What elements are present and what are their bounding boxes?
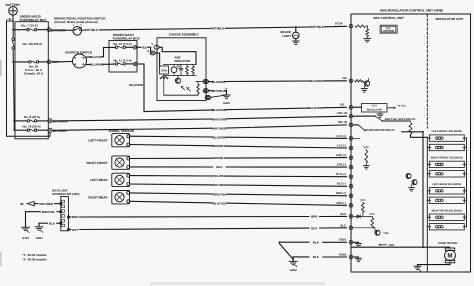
svg-text:MR +B: MR +B xyxy=(338,120,347,124)
svg-text:G401: G401 xyxy=(223,101,230,105)
svg-text:BLU/ORN: BLU/ORN xyxy=(308,106,322,110)
svg-text:WHT/RED: WHT/RED xyxy=(212,126,227,130)
svg-text:INDICATOR: INDICATOR xyxy=(175,59,192,63)
svg-text:FRS (-): FRS (-) xyxy=(337,163,346,167)
svg-text:ABS MODULATOR-CONTROL UNIT (4W: ABS MODULATOR-CONTROL UNIT (4WB) xyxy=(380,8,443,12)
svg-text:No. 18 (100 A): No. 18 (100 A) xyxy=(23,42,43,46)
svg-text:VCC: VCC xyxy=(364,146,370,149)
svg-text:GRY: GRY xyxy=(72,228,78,232)
svg-text:G101: G101 xyxy=(22,236,29,240)
svg-text:WHT/BLK: WHT/BLK xyxy=(84,28,99,32)
svg-text:GAUGE ASSEMBLY: GAUGE ASSEMBLY xyxy=(169,33,200,37)
svg-text:RIGHT-FRONT: RIGHT-FRONT xyxy=(86,161,107,165)
svg-text:FRS (+): FRS (+) xyxy=(336,153,346,157)
svg-text:M: M xyxy=(447,253,452,260)
svg-text:Canada: 50 A: Canada: 50 A xyxy=(24,71,44,75)
svg-text:ABS FAIL-SAFE RELAY: ABS FAIL-SAFE RELAY xyxy=(385,117,416,121)
svg-text:WHT/BLK: WHT/BLK xyxy=(310,25,325,29)
svg-text:BLU/ORN: BLU/ORN xyxy=(212,108,226,112)
svg-text:PUMP MOTOR RELAY: PUMP MOTOR RELAY xyxy=(366,128,395,132)
svg-text:BLK: BLK xyxy=(313,255,320,259)
svg-text:No. 7 (15 A): No. 7 (15 A) xyxy=(21,24,37,28)
svg-text:GND2: GND2 xyxy=(339,252,347,256)
svg-text:FLS (+): FLS (+) xyxy=(336,134,346,138)
svg-text:WHEEL SENSOR: WHEEL SENSOR xyxy=(109,129,135,133)
svg-text:BLU: BLU xyxy=(216,165,222,169)
svg-text:FUSE/RELAY BOX: FUSE/RELAY BOX xyxy=(113,37,141,41)
svg-text:WHT/RED: WHT/RED xyxy=(53,129,68,133)
svg-text:BRN/WHT: BRN/WHT xyxy=(212,144,226,148)
svg-text:YEL/RED: YEL/RED xyxy=(213,174,227,178)
svg-text:RIGHT-FRONT SOLENOID: RIGHT-FRONT SOLENOID xyxy=(431,157,463,160)
svg-text:RLS (+): RLS (+) xyxy=(336,172,346,176)
svg-text:G202: G202 xyxy=(290,268,297,272)
svg-text:CONNECTOR (16P): CONNECTOR (16P) xyxy=(52,192,79,196)
svg-text:*1: '02-04 models: *1: '02-04 models xyxy=(22,253,47,257)
svg-text:YEL: YEL xyxy=(141,45,147,49)
svg-text:BRN: BRN xyxy=(72,215,79,219)
svg-text:WHT/GRN: WHT/GRN xyxy=(212,117,226,121)
svg-text:WA: WA xyxy=(342,76,347,80)
svg-text:BRN: BRN xyxy=(311,215,318,219)
svg-text:IG1: IG1 xyxy=(340,102,345,106)
svg-text:BATTERY: BATTERY xyxy=(6,3,22,7)
svg-text:BLU/ORN: BLU/ORN xyxy=(129,83,143,87)
svg-text:RRS (-): RRS (-) xyxy=(337,201,347,205)
svg-text:FSR +B: FSR +B xyxy=(337,111,347,115)
svg-text:(Closed: Brake pedal pressed): (Closed: Brake pedal pressed) xyxy=(54,20,97,24)
svg-text:BLU/GRN: BLU/GRN xyxy=(213,135,227,139)
svg-text:BLU/RED: BLU/RED xyxy=(212,80,226,84)
svg-text:WHT/GRN: WHT/GRN xyxy=(53,119,67,123)
svg-text:No. 11 (7.5 A): No. 11 (7.5 A) xyxy=(113,59,131,63)
svg-text:PUMP MOTOR: PUMP MOTOR xyxy=(438,241,457,245)
svg-text:No. 8 (20 A): No. 8 (20 A) xyxy=(24,115,40,119)
svg-text:BRN/YEL: BRN/YEL xyxy=(42,210,55,214)
svg-text:TXD: TXD xyxy=(383,232,388,235)
svg-text:BLU/RED: BLU/RED xyxy=(310,79,324,83)
svg-text:WHT/RED: WHT/RED xyxy=(39,202,54,206)
svg-text:IGNITION SWITCH: IGNITION SWITCH xyxy=(65,50,93,54)
svg-text:+ B: + B xyxy=(6,17,12,21)
svg-text:FLS (-): FLS (-) xyxy=(337,143,346,147)
svg-text:GRY: GRY xyxy=(311,226,317,230)
svg-text:RXD: RXD xyxy=(389,244,395,247)
svg-text:FUSE/RELAY BOX: FUSE/RELAY BOX xyxy=(20,18,48,22)
svg-text:+5 V: +5 V xyxy=(372,105,378,108)
svg-text:SCS: SCS xyxy=(340,212,346,216)
svg-text:No. 16 (30 A): No. 16 (30 A) xyxy=(22,124,40,128)
svg-text:LEFT-FRONT: LEFT-FRONT xyxy=(88,139,107,143)
svg-text:LEFT-FRONT SOLENOID: LEFT-FRONT SOLENOID xyxy=(432,130,463,133)
svg-text:BLK: BLK xyxy=(313,240,320,244)
svg-text:GND1: GND1 xyxy=(339,238,347,242)
svg-text:RIGHT-REAR SOLENOID: RIGHT-REAR SOLENOID xyxy=(432,210,463,213)
svg-text:No. 10 (7.5 A): No. 10 (7.5 A) xyxy=(113,42,131,46)
svg-text:VCC: VCC xyxy=(370,213,376,216)
svg-text:RLS (-): RLS (-) xyxy=(337,182,346,186)
svg-text:LEFT-REAR SOLENOID: LEFT-REAR SOLENOID xyxy=(432,183,461,186)
svg-text:GRY/RED: GRY/RED xyxy=(213,183,227,187)
svg-text:WHT/GRN: WHT/GRN xyxy=(51,28,67,32)
svg-text:BLK: BLK xyxy=(49,222,56,226)
svg-text:EEPROM: EEPROM xyxy=(383,30,393,33)
svg-text:GRN/BLK: GRN/BLK xyxy=(213,156,227,160)
svg-text:To VCC: To VCC xyxy=(398,105,407,108)
svg-text:GRN/YEL: GRN/YEL xyxy=(213,192,227,196)
svg-text:BLU/YEL: BLU/YEL xyxy=(90,55,103,59)
svg-text:REGULATOR: REGULATOR xyxy=(367,108,382,111)
svg-text:BLU/RED: BLU/RED xyxy=(90,63,104,67)
svg-text:G401: G401 xyxy=(36,236,43,240)
svg-text:*2: '05-06 models: *2: '05-06 models xyxy=(22,258,47,262)
svg-text:ABS CONTROL UNIT: ABS CONTROL UNIT xyxy=(373,16,404,20)
svg-text:WHT: WHT xyxy=(52,60,59,64)
svg-text:RIGHT-REAR: RIGHT-REAR xyxy=(88,196,108,200)
svg-text:BLE: BLE xyxy=(340,223,346,227)
svg-text:MODULATOR UNIT: MODULATOR UNIT xyxy=(435,17,463,21)
svg-text:CPU: CPU xyxy=(161,68,167,72)
svg-text:WHT/BLK: WHT/BLK xyxy=(210,27,225,31)
svg-text:RRS (+): RRS (+) xyxy=(336,191,346,195)
svg-text:BLU/YEL: BLU/YEL xyxy=(213,201,226,205)
svg-text:LEFT-REAR: LEFT-REAR xyxy=(90,178,108,182)
svg-text:STOP: STOP xyxy=(335,21,343,25)
svg-text:VCC: VCC xyxy=(360,199,366,202)
svg-text:LIGHT: LIGHT xyxy=(282,34,291,38)
